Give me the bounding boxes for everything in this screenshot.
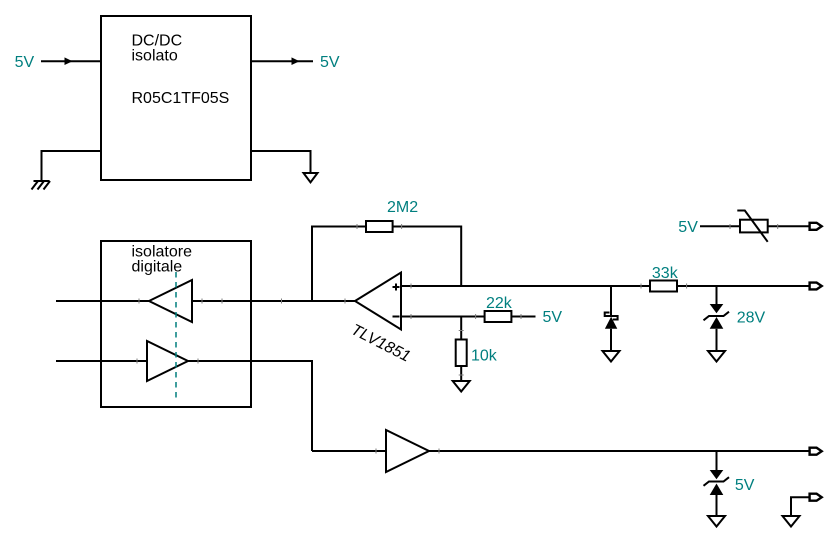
wire 22k to 5V [511, 316, 535, 318]
svg-text:5V: 5V [15, 54, 35, 71]
svg-text:28V: 28V [737, 310, 766, 327]
ground TVS 28V [708, 351, 725, 362]
wire 33k to output connector [677, 285, 810, 287]
digital isolator box [101, 241, 251, 407]
buffer lower (right pointing) [147, 341, 188, 381]
wire to 10k [460, 317, 462, 340]
svg-text:5V: 5V [678, 219, 698, 236]
svg-text:digitale: digitale [132, 259, 183, 276]
svg-text:5V: 5V [543, 309, 563, 326]
diode D1 schottky [605, 313, 618, 320]
resistor 10k [456, 340, 467, 367]
pin plus [393, 284, 400, 291]
svg-text:22k: 22k [486, 295, 513, 312]
DC/DC converter U? box [101, 16, 251, 180]
svg-text:5V: 5V [320, 54, 340, 71]
wire TVS to ground [716, 329, 718, 351]
buffer upper (left pointing) [149, 280, 192, 322]
svg-text:33k: 33k [652, 265, 679, 282]
wire 5V input [41, 60, 101, 62]
TVS D3 5V bidirectional [710, 470, 724, 479]
wire to TVS 28V [716, 286, 718, 304]
ground output side [304, 173, 318, 182]
wire 5V output [251, 60, 313, 62]
wire fuse to connector [768, 225, 810, 227]
connector output comparator [810, 283, 822, 290]
wire 5V to fuse [700, 225, 740, 227]
wire schottky to ground [610, 329, 612, 351]
wire into lower buffer [312, 450, 386, 452]
wire feedback [312, 227, 461, 302]
svg-text:isolato: isolato [132, 48, 178, 65]
connector 5V out [810, 223, 822, 230]
svg-text:2M2: 2M2 [387, 199, 418, 216]
wire input ground [42, 151, 102, 181]
TVS D2 28V bidirectional [710, 304, 724, 313]
svg-text:5V: 5V [735, 477, 755, 494]
resistor 33k [650, 281, 677, 292]
arrow input [65, 57, 73, 65]
ground 10k [453, 381, 470, 392]
ground chassis input side [32, 181, 51, 190]
ground schottky [603, 351, 620, 362]
fuse PTC F1 [740, 220, 768, 233]
wire TVS 5V to ground [716, 495, 718, 516]
isolator barrier dashed line [175, 272, 177, 400]
wire output ground [251, 151, 311, 173]
svg-text:TLV1851: TLV1851 [348, 321, 413, 365]
ground return [783, 516, 800, 527]
connector digital out [810, 448, 822, 455]
arrow output [292, 57, 300, 65]
wire connector to ground [791, 497, 810, 516]
resistor 2M2 [366, 221, 393, 232]
wire lower channel [56, 361, 312, 451]
wire to TVS 5V [716, 451, 718, 470]
wire upper channel [56, 300, 355, 302]
wire buffer to connector [429, 450, 810, 452]
buffer output stage [386, 430, 429, 472]
wire non-inverting input [401, 285, 650, 287]
comparator U1 TLV1851 [355, 273, 401, 330]
connector ground return [810, 494, 822, 501]
svg-text:R05C1TF05S: R05C1TF05S [132, 90, 230, 107]
svg-text:10k: 10k [471, 347, 498, 364]
pin ticks [137, 224, 778, 454]
ground TVS 5V [708, 516, 725, 527]
wire inverting input [401, 316, 485, 318]
pin minus [393, 316, 400, 318]
wire to schottky [610, 286, 612, 316]
wire 10k to ground [460, 366, 462, 381]
resistor 22k [485, 311, 512, 322]
